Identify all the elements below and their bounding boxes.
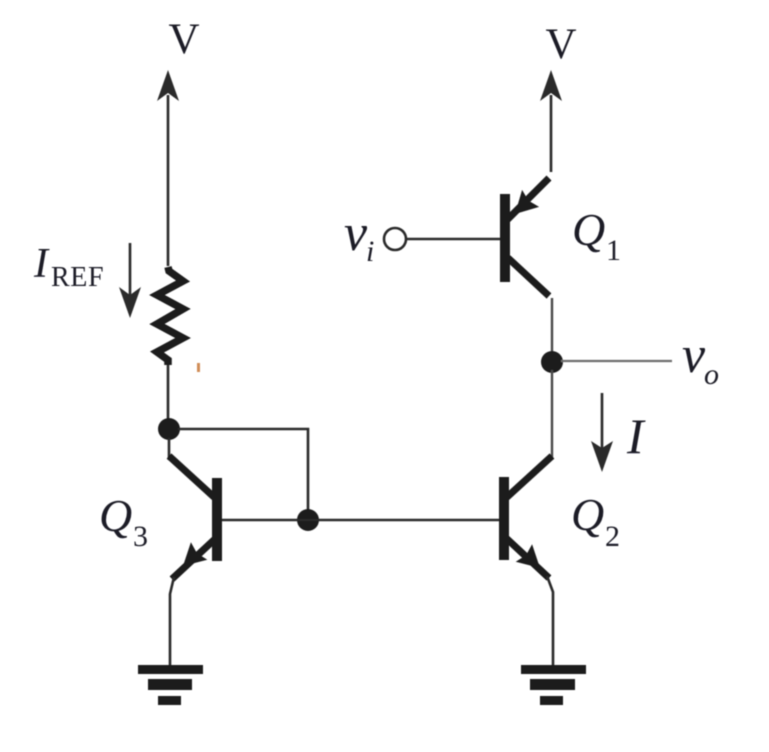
wire Q3 emitter to ground — [170, 577, 174, 666]
svg-text:I: I — [626, 408, 646, 464]
wire resistor to node A — [167, 365, 170, 428]
stray orange mark — [197, 363, 200, 372]
svg-text:3: 3 — [133, 520, 148, 553]
wire node C down to Q2 collector — [551, 370, 553, 458]
node B (base junction) — [297, 509, 319, 531]
transistor Q1 (PNP emitter follower) — [505, 178, 549, 296]
label v_o — [682, 327, 719, 391]
label I — [626, 408, 646, 464]
svg-text:V: V — [545, 21, 576, 68]
svg-text:i: i — [366, 235, 374, 268]
node A (Q3 collector / mirror node) — [158, 418, 180, 440]
svg-text:V: V — [168, 16, 199, 63]
svg-text:I: I — [33, 241, 50, 287]
label Q2 — [571, 489, 620, 553]
svg-text:REF: REF — [51, 262, 104, 293]
wire Q1 collector to node C — [551, 298, 553, 354]
ground (Q2) — [521, 665, 586, 705]
transistor Q3 (diode-connected NPN, mirrored) — [169, 456, 217, 579]
wire node A down to Q3 collector — [168, 438, 171, 460]
svg-text:2: 2 — [605, 520, 620, 553]
svg-text:o: o — [704, 358, 719, 391]
svg-text:v: v — [682, 327, 706, 384]
label Q1 — [572, 204, 621, 267]
current arrow I_REF down — [119, 243, 141, 318]
wire base bus: Q3 base to Q2 base — [221, 519, 500, 522]
label v_i — [344, 205, 374, 268]
label I_REF — [33, 241, 104, 293]
svg-text:v: v — [344, 205, 368, 262]
wire node C to v_o — [561, 360, 672, 362]
wire v_i to Q1 base — [406, 238, 500, 241]
current arrow I down — [591, 393, 613, 472]
wire Q2 emitter to ground — [547, 576, 553, 666]
supply V label (left) — [168, 16, 199, 63]
svg-text:Q: Q — [571, 489, 604, 540]
label Q3 — [99, 490, 148, 553]
supply V label (right) — [545, 21, 576, 68]
resistor R (I_REF source) — [157, 267, 183, 365]
supply arrow up (right) — [540, 70, 562, 172]
node C (output node) — [541, 351, 563, 373]
supply arrow up (left) — [157, 70, 179, 266]
transistor Q2 (current mirror output) — [504, 456, 552, 578]
svg-text:1: 1 — [606, 234, 621, 267]
ground (Q3) — [138, 665, 203, 705]
svg-text:Q: Q — [572, 204, 605, 255]
wire node A to corner down to node B — [178, 429, 308, 515]
input terminal circle v_i — [384, 228, 406, 250]
svg-text:Q: Q — [99, 490, 132, 541]
